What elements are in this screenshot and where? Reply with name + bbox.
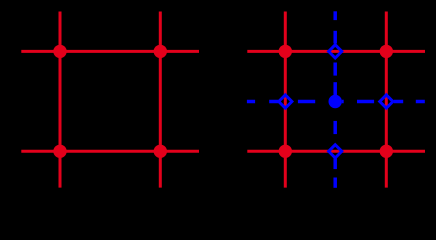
wire: left coarse horizontal line 1 xyxy=(21,50,199,53)
wire: left coarse vertical line 1 xyxy=(59,12,62,188)
fine grid (right diagram) red part xyxy=(247,12,425,188)
node: left coarse grid point bottom-left xyxy=(53,145,66,158)
wire: blue vertical dash v7 xyxy=(333,178,337,188)
wire: left coarse vertical line 2 xyxy=(159,12,162,188)
wire: blue vertical dash v2 xyxy=(333,31,337,44)
node: left coarse grid point top-right xyxy=(154,45,167,58)
wire: blue horizontal dash h3 xyxy=(298,100,315,104)
node: fine grid open diamond bottom xyxy=(329,145,342,158)
wire: blue horizontal dash h4 xyxy=(357,100,374,104)
wire: blue vertical dash v6 xyxy=(333,159,337,170)
node: right coarse grid point bottom-left xyxy=(279,145,292,158)
wire: blue dash nub right of centre point xyxy=(342,100,344,104)
node: right coarse grid point top-right xyxy=(380,45,393,58)
wire: blue horizontal dash h1 xyxy=(247,100,255,104)
wire: blue vertical dash v1 xyxy=(333,11,337,20)
node: left coarse grid point top-left xyxy=(53,45,66,58)
node: fine grid open diamond right xyxy=(380,95,393,108)
wire: blue vertical dash v3 xyxy=(333,63,337,76)
node: left coarse grid point bottom-right xyxy=(154,145,167,158)
coarse grid (left diagram) xyxy=(21,12,199,188)
wire: blue vertical dash v4 xyxy=(333,82,337,95)
wire: blue vertical dash v5 xyxy=(333,121,337,134)
wire: right coarse vertical line 1 xyxy=(284,12,287,188)
wire: blue horizontal dash h5 xyxy=(394,100,403,104)
node: right coarse grid point top-left xyxy=(279,45,292,58)
node: fine grid open diamond left xyxy=(279,95,292,108)
node: fine grid centre point (filled blue dot) xyxy=(329,95,342,108)
wire: blue horizontal dash h2 xyxy=(269,100,278,104)
wire: right coarse horizontal line 2 xyxy=(247,150,425,153)
node: right coarse grid point bottom-right xyxy=(380,145,393,158)
fine grid blue dashed centre lines (explicit dash segments) xyxy=(247,11,425,188)
node: fine grid open diamond top xyxy=(329,45,342,58)
wire: right coarse vertical line 2 xyxy=(385,12,388,188)
fine-grid-only points: open blue diamonds xyxy=(279,45,393,158)
wire: left coarse horizontal line 2 xyxy=(21,150,199,153)
wire: right coarse horizontal line 1 xyxy=(247,50,425,53)
wire: blue horizontal dash h6 xyxy=(416,100,425,104)
